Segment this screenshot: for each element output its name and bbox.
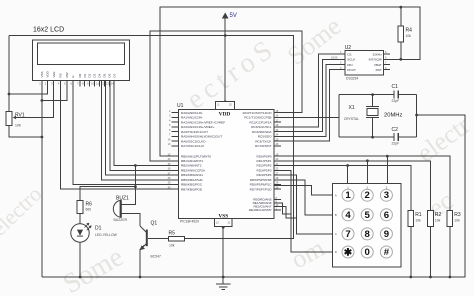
svg-text:DS3234: DS3234 <box>346 77 358 81</box>
svg-text:R1: R1 <box>415 212 422 218</box>
svg-text:VBAT: VBAT <box>374 63 382 67</box>
svg-text:10k: 10k <box>415 219 421 223</box>
svg-text:SCLK: SCLK <box>347 58 356 62</box>
svg-text:A: A <box>335 193 337 197</box>
svg-text:RB1/AN10/INT1: RB1/AN10/INT1 <box>181 159 203 163</box>
svg-text:D7: D7 <box>112 73 116 77</box>
svg-text:R5: R5 <box>169 231 176 237</box>
svg-text:PIC18F4520: PIC18F4520 <box>180 220 199 224</box>
svg-text:D6: D6 <box>107 73 111 77</box>
svg-text:VEE: VEE <box>52 71 56 77</box>
svg-text:D2: D2 <box>88 73 92 77</box>
svg-text:22pF: 22pF <box>392 99 400 103</box>
svg-text:10k: 10k <box>435 219 441 223</box>
svg-text:RC4/SDI/SDA: RC4/SDI/SDA <box>252 130 272 134</box>
svg-text:E: E <box>71 75 75 77</box>
svg-text:0: 0 <box>365 247 370 258</box>
svg-text:RE3/MCLR/VPP: RE3/MCLR/VPP <box>249 208 272 212</box>
svg-text:D1: D1 <box>83 73 87 77</box>
svg-text:RC1/T1OSI/CCP2B: RC1/T1OSI/CCP2B <box>244 116 271 120</box>
svg-text:10k: 10k <box>454 219 460 223</box>
svg-text:D5: D5 <box>102 73 106 77</box>
svg-text:✱: ✱ <box>344 248 353 259</box>
svg-text:LED-YELLOW: LED-YELLOW <box>95 233 118 237</box>
svg-text:C1: C1 <box>392 84 399 90</box>
svg-text:RB7/KBI3/PGD: RB7/KBI3/PGD <box>181 187 203 191</box>
svg-text:VDD: VDD <box>219 111 231 117</box>
svg-text:RA1/AN1/C2IN-: RA1/AN1/C2IN- <box>181 116 203 120</box>
svg-text:RD4/PSP4: RD4/PSP4 <box>257 173 272 177</box>
svg-text:RA4/T0CKI/C1OUT: RA4/T0CKI/C1OUT <box>181 130 208 134</box>
svg-text:VSS: VSS <box>218 213 228 219</box>
svg-text:DOUT: DOUT <box>347 68 356 72</box>
svg-text:RB3/AN9/CCP2A: RB3/AN9/CCP2A <box>181 169 206 173</box>
svg-text:RC3/SCK/SCL: RC3/SCK/SCL <box>251 125 272 129</box>
svg-text:RW: RW <box>65 72 69 77</box>
svg-text:7: 7 <box>345 229 350 240</box>
svg-text:RST: RST <box>376 68 382 72</box>
svg-text:5V: 5V <box>230 13 237 19</box>
svg-text:RA6/OSC2/CLKO: RA6/OSC2/CLKO <box>181 139 206 143</box>
svg-text:32KHz: 32KHz <box>373 53 383 57</box>
svg-text:RA2/AN2/C2IN+/VREF-/CVREF: RA2/AN2/C2IN+/VREF-/CVREF <box>181 120 225 124</box>
svg-text:RA0/AN0/C1IN-: RA0/AN0/C1IN- <box>181 111 203 115</box>
svg-text:RB5/KBI1/PGM: RB5/KBI1/PGM <box>181 178 203 182</box>
svg-text:VSS: VSS <box>40 71 44 77</box>
svg-text:1: 1 <box>345 190 351 201</box>
svg-text:U1: U1 <box>177 103 184 109</box>
svg-text:RD2/PSP2: RD2/PSP2 <box>257 164 272 168</box>
svg-text:RC2/CCP1/P1A: RC2/CCP1/P1A <box>249 120 272 124</box>
svg-text:D3: D3 <box>93 73 97 77</box>
svg-text:RB4/KBI0/AN11: RB4/KBI0/AN11 <box>181 173 203 177</box>
svg-text:10k: 10k <box>169 244 175 248</box>
svg-text:DIN: DIN <box>347 63 352 67</box>
svg-text:RC5/SDO: RC5/SDO <box>258 135 272 139</box>
svg-text:RA7/OSC1/CLKI: RA7/OSC1/CLKI <box>181 144 204 148</box>
svg-text:RB6/KBI2/PGC: RB6/KBI2/PGC <box>181 183 203 187</box>
svg-text:5: 5 <box>365 210 371 221</box>
svg-text:RC6/TX/CK: RC6/TX/CK <box>255 139 272 143</box>
svg-text:22pF: 22pF <box>392 142 400 146</box>
svg-text:BC547: BC547 <box>151 255 161 259</box>
svg-text:9: 9 <box>384 229 389 240</box>
svg-text:660: 660 <box>86 208 92 212</box>
svg-text:C2: C2 <box>392 127 399 133</box>
svg-text:RS: RS <box>59 73 63 77</box>
svg-text:BUZZER: BUZZER <box>114 218 128 222</box>
svg-text:10K: 10K <box>15 124 22 128</box>
svg-text:R2: R2 <box>435 212 442 218</box>
svg-text:16/20: 16/20 <box>331 56 338 59</box>
svg-text:RA3/AN3/C1IN+/VREF+: RA3/AN3/C1IN+/VREF+ <box>181 125 215 129</box>
svg-text:RB2/AN8/INT2: RB2/AN8/INT2 <box>181 164 202 168</box>
svg-text:10k: 10k <box>406 34 412 38</box>
svg-text:8: 8 <box>365 229 371 240</box>
svg-text:R3: R3 <box>454 212 461 218</box>
svg-text:INT/SQW: INT/SQW <box>369 58 382 62</box>
svg-text:#: # <box>384 247 390 258</box>
svg-text:U2: U2 <box>345 45 352 51</box>
svg-text:RD3/PSP3: RD3/PSP3 <box>257 169 272 173</box>
svg-text:Q1: Q1 <box>151 221 158 227</box>
svg-text:RD0/PSP0: RD0/PSP0 <box>257 154 272 158</box>
svg-text:X1: X1 <box>349 105 355 111</box>
svg-text:D0: D0 <box>78 73 82 77</box>
svg-text:CRYSTAL: CRYSTAL <box>344 117 359 121</box>
svg-text:CS: CS <box>347 53 351 57</box>
svg-text:VDD: VDD <box>46 70 50 77</box>
svg-text:RC7/RX/DT: RC7/RX/DT <box>255 144 271 148</box>
svg-text:B: B <box>335 213 337 217</box>
svg-text:20MHz: 20MHz <box>384 113 402 119</box>
svg-text:RV1: RV1 <box>15 113 25 119</box>
svg-text:4: 4 <box>345 210 351 221</box>
svg-text:RD5/PSP5/P1B: RD5/PSP5/P1B <box>250 178 272 182</box>
svg-text:BUZ1: BUZ1 <box>116 196 129 202</box>
svg-text:2: 2 <box>365 190 370 201</box>
svg-text:RD6/PSP6/P1C: RD6/PSP6/P1C <box>250 183 273 187</box>
svg-text:RD1/PSP1: RD1/PSP1 <box>257 159 272 163</box>
svg-text:16x2 LCD: 16x2 LCD <box>33 27 64 34</box>
svg-text:RC0/T1OSO/T13CKI: RC0/T1OSO/T13CKI <box>243 111 272 115</box>
svg-text:RB0/AN12/FLT0/INT0: RB0/AN12/FLT0/INT0 <box>181 154 211 158</box>
svg-text:R4: R4 <box>406 28 413 34</box>
svg-text:RD7/PSP7/P1D: RD7/PSP7/P1D <box>250 187 273 191</box>
svg-text:6: 6 <box>384 210 389 221</box>
svg-text:3: 3 <box>384 190 389 201</box>
svg-text:RA5/AN4/SS/HLVDIN/C2OUT: RA5/AN4/SS/HLVDIN/C2OUT <box>181 135 222 139</box>
svg-text:D4: D4 <box>98 73 102 77</box>
svg-text:D1: D1 <box>95 226 102 232</box>
